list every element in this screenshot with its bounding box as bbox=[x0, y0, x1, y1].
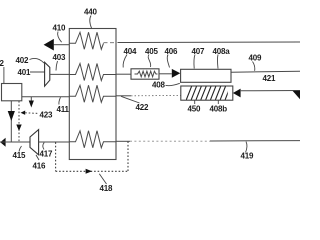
leader 422 bbox=[121, 96, 140, 103]
leader 403 bbox=[56, 61, 58, 71]
leader 408 bbox=[166, 83, 180, 85]
wire turbine outlet to recuperator bbox=[39, 141, 70, 143]
heater 405 box bbox=[131, 69, 159, 79]
svg-text:408a: 408a bbox=[213, 47, 231, 56]
svg-text:405: 405 bbox=[145, 47, 158, 56]
arrow left edge (exhaust discharge) bbox=[0, 138, 5, 147]
recuperator box 440 bbox=[69, 29, 116, 160]
leader 416 bbox=[36, 155, 39, 160]
svg-text:415: 415 bbox=[13, 151, 26, 160]
wire turbine inlet line bbox=[0, 141, 30, 143]
pointer 423 arrow bbox=[21, 111, 26, 115]
wire 419 bbox=[116, 140, 130, 142]
wire arrow410 to box bbox=[54, 44, 70, 46]
svg-text:402: 402 bbox=[16, 56, 29, 65]
svg-text:409: 409 bbox=[249, 54, 262, 63]
leader 411 bbox=[59, 97, 61, 104]
svg-text:408b: 408b bbox=[210, 105, 228, 114]
svg-text:411: 411 bbox=[57, 105, 70, 114]
vertical line from box 412 with down arrow bbox=[10, 101, 12, 142]
svg-text:408: 408 bbox=[152, 81, 165, 90]
wire top line to right edge bbox=[118, 41, 301, 44]
svg-text:419: 419 bbox=[241, 152, 254, 161]
coil C bbox=[69, 85, 116, 102]
svg-text:450: 450 bbox=[188, 105, 201, 114]
wire 411 bbox=[22, 96, 70, 98]
coil D (exhaust coil) bbox=[69, 131, 116, 148]
leader 418 bbox=[99, 174, 106, 184]
svg-text:422: 422 bbox=[136, 103, 149, 112]
leader 410 bbox=[58, 32, 62, 43]
svg-text:421: 421 bbox=[263, 74, 276, 83]
wire from arrow to right bbox=[240, 90, 300, 92]
heater 405 zigzag bbox=[135, 71, 158, 77]
compressor 403 bbox=[45, 62, 50, 86]
svg-text:403: 403 bbox=[53, 53, 66, 62]
leader 415 bbox=[19, 146, 22, 152]
svg-text:423: 423 bbox=[40, 111, 53, 120]
dash-dot bypass 418 right vertical bbox=[127, 141, 129, 171]
coil A (top heat-exchanger coil) bbox=[69, 32, 103, 49]
branch stub with down arrow bbox=[30, 97, 32, 101]
svg-text:407: 407 bbox=[192, 47, 205, 56]
wire 405 to 406 bbox=[159, 73, 172, 75]
box 407/408a bbox=[181, 69, 231, 82]
svg-text:440: 440 bbox=[84, 8, 97, 17]
wire 401 inlet bbox=[30, 71, 45, 73]
dash-dot bypass 418 left vertical bbox=[55, 142, 57, 171]
svg-text:404: 404 bbox=[124, 47, 137, 56]
svg-text:417: 417 bbox=[40, 150, 53, 159]
flow arrow on 418 bbox=[86, 169, 92, 174]
leader 419 bbox=[246, 142, 248, 153]
wire 404 bbox=[116, 73, 131, 75]
svg-text:406: 406 bbox=[165, 47, 178, 56]
dash-dot line 423 vertical bbox=[18, 101, 20, 142]
wire 421 bbox=[231, 71, 300, 72]
leader 440 bbox=[90, 16, 92, 29]
box 412 bbox=[2, 84, 22, 101]
leader 417 bbox=[43, 143, 44, 150]
turbine 416 bbox=[30, 130, 39, 155]
svg-text:401: 401 bbox=[18, 68, 31, 77]
svg-text:416: 416 bbox=[33, 162, 46, 171]
stack 450 box bbox=[181, 86, 233, 100]
dash-dot bypass 418 bottom bbox=[56, 170, 128, 172]
arrow 406 bbox=[172, 69, 181, 78]
wire dashed coil A right lead bbox=[104, 42, 117, 44]
leader 412 bbox=[3, 67, 5, 83]
arrow 410 (exhaust out, filled left arrow) bbox=[44, 39, 54, 51]
arrow into 450 bbox=[233, 89, 241, 98]
leader 402 bbox=[30, 58, 45, 63]
leader 409 bbox=[253, 62, 255, 71]
svg-text:410: 410 bbox=[53, 24, 66, 33]
wire 422 bbox=[116, 95, 131, 97]
right edge half arrow bbox=[293, 91, 301, 100]
svg-text:418: 418 bbox=[100, 184, 113, 193]
wire compressor outlet bbox=[50, 73, 70, 75]
coil B bbox=[69, 64, 116, 81]
